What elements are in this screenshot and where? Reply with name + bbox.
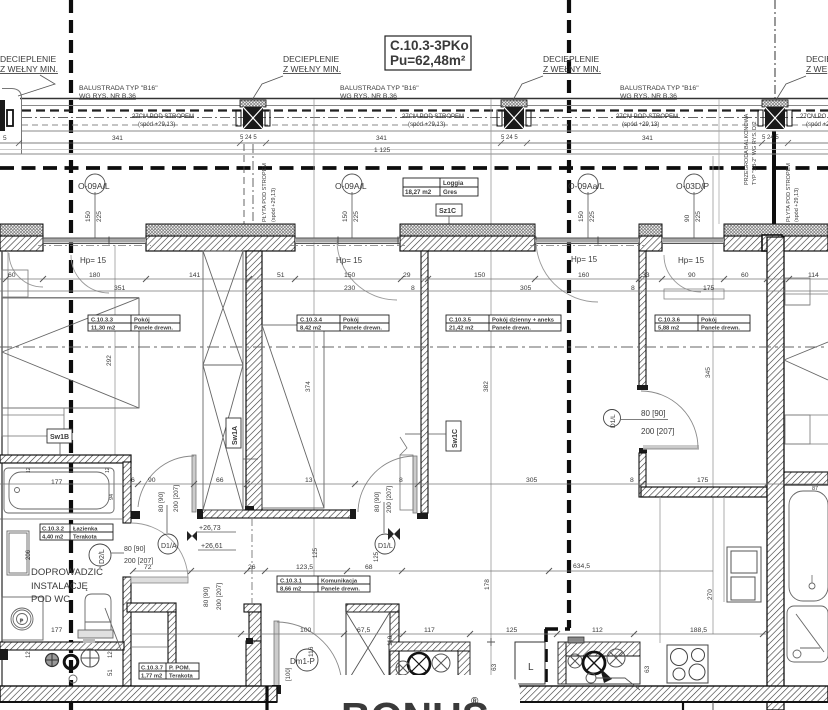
door size text room 3.6 [641,409,674,436]
svg-text:200 [207]: 200 [207] [386,486,393,513]
svg-text:Sz1C: Sz1C [439,208,456,215]
svg-text:67,5: 67,5 [357,627,370,634]
level marker bowtie 1 [187,531,197,541]
svg-text:C.10.3.6: C.10.3.6 [658,318,681,324]
svg-text:8: 8 [411,285,415,292]
svg-text:Pokój: Pokój [134,318,150,324]
svg-text:12: 12 [108,651,114,658]
axis dash-dot horizontal y347 [0,346,828,348]
fridge box L [515,642,545,684]
svg-text:180: 180 [89,272,101,279]
interior wall V2 (x421-428 between room 3.4/living) [417,251,428,519]
svg-text:L: L [528,662,534,673]
svg-text:382: 382 [483,381,490,392]
window door jamb ticks [43,237,598,245]
svg-text:(spód +29,13): (spód +29,13) [408,122,445,128]
room label C.10.3.7 P.POM [132,647,199,680]
svg-text:374: 374 [305,381,312,392]
svg-text:33: 33 [642,272,650,279]
svg-text:225: 225 [96,211,103,222]
level note +26,73 / +26,61 [199,525,223,550]
neighbour desk [785,415,828,444]
balcony door swing arc 1a [9,253,43,287]
svg-text:WG RYS. NR B.36: WG RYS. NR B.36 [620,93,677,100]
laundry small circle [69,675,77,683]
svg-text:PŁYTA POD STROPEM: PŁYTA POD STROPEM [786,163,792,222]
svg-text:12: 12 [26,467,32,473]
window symbol circle O-09Aa/L [568,174,605,238]
heavy black divider line right balcony [772,131,776,238]
svg-text:80 [90]: 80 [90] [158,492,165,512]
exterior wall top segment E (x724-828) [724,224,828,251]
section ticks through bottom wall [265,686,268,710]
svg-text:O-09A/L: O-09A/L [335,181,367,191]
window W4 (x662-724) [662,238,724,244]
left wall inner line [7,251,9,455]
door size text bath door [124,546,153,565]
svg-text:C.10.3.3: C.10.3.3 [91,318,114,324]
svg-text:O-03D/P: O-03D/P [676,181,709,191]
tall cabinet Sw1A with X bracing [203,251,243,510]
grid line x314 [313,99,315,634]
svg-text:P. POM.: P. POM. [169,666,191,672]
door tag Dm1-P circle [290,649,318,671]
slab axis dash-dot [22,117,828,119]
svg-text:26: 26 [248,564,256,571]
slab hidden edge heavy dashed [22,109,828,111]
door tag D1/L circle (room 3.6) [604,410,669,429]
bathroom door D2/L leaf horizontal [131,523,188,583]
svg-text:200 [207]: 200 [207] [173,485,180,512]
svg-text:[100]: [100] [286,667,292,681]
neighbour room right: shelf lines [785,278,828,305]
interior door room 3.6: leaf + arc [641,391,699,449]
svg-text:Panele drewn.: Panele drewn. [134,326,173,332]
svg-text:Panele drewn.: Panele drewn. [343,326,382,332]
svg-text:116: 116 [308,646,315,657]
svg-text:18,27 m2: 18,27 m2 [405,189,432,196]
svg-text:Łazienka: Łazienka [73,527,98,533]
svg-text:160: 160 [578,272,590,279]
kitchen right counter [558,637,640,690]
note 27cm pod stropem 2 [402,114,464,128]
svg-text:4,40 m2: 4,40 m2 [42,535,63,541]
svg-text:D1/L: D1/L [378,543,393,550]
svg-text:66: 66 [216,477,224,484]
svg-text:341: 341 [376,135,387,142]
svg-text:114: 114 [808,272,819,279]
svg-text:(spód +2: (spód +2 [806,122,828,128]
laundry strip fittings: gray circle [46,654,59,667]
svg-text:125: 125 [506,627,518,634]
svg-text:BALUSTRADA TYP "B16": BALUSTRADA TYP "B16" [79,85,158,92]
niche box top-left [2,270,28,297]
balcony column 2 [236,100,270,129]
svg-text:225: 225 [695,211,702,222]
svg-text:29: 29 [403,272,411,279]
balcony column left partial [0,100,13,131]
svg-text:Hp= 15: Hp= 15 [571,255,598,264]
svg-text:200 [207]: 200 [207] [641,427,674,436]
svg-text:8: 8 [399,477,403,484]
svg-text:®: ® [471,696,479,707]
svg-text:123,5: 123,5 [296,564,313,571]
balcony door swing arc 2 [337,240,397,300]
room label C.10.3.1 corridor [277,576,370,593]
laundry strip fittings: black ring [64,655,78,669]
svg-text:177: 177 [51,627,63,634]
svg-text:188,5: 188,5 [690,627,707,634]
svg-text:Sw1B: Sw1B [50,434,69,441]
chain y278 labels [8,272,819,279]
exterior wall top segment C (x400-535) [400,224,535,251]
svg-text:270: 270 [707,589,714,600]
svg-text:Komunikacja: Komunikacja [321,579,358,585]
balcony column 4 [758,100,792,129]
note 27cm pod stropem 1 [132,114,194,128]
svg-text:8: 8 [631,285,635,292]
chain y483 ticks [135,481,770,487]
svg-text:C.10.3.1: C.10.3.1 [280,579,303,585]
grid line x713 [712,156,714,634]
balustrade inner line [22,105,828,107]
left edge black block [0,649,8,660]
svg-text:206: 206 [26,549,32,560]
svg-text:D1/A: D1/A [161,543,177,550]
svg-text:Terakota: Terakota [73,535,98,541]
axis dash-dot below wall V1 [251,518,253,604]
bottom exterior wall right part [343,686,828,702]
laundry strip fittings: crossed circle valve [81,649,99,667]
svg-text:8,42 m2: 8,42 m2 [300,326,321,332]
note balustrada 1 [79,85,158,100]
svg-text:225: 225 [353,211,360,222]
left party wall line [1,251,3,688]
svg-text:WG RYS. NR B.36: WG RYS. NR B.36 [340,93,397,100]
svg-text:BALUSTRADA TYP "B16": BALUSTRADA TYP "B16" [340,85,419,92]
svg-text:341: 341 [112,135,123,142]
note doprowadzic instalacje pod wc [31,567,103,605]
svg-text:WG RYS. NR B.36: WG RYS. NR B.36 [79,93,136,100]
svg-text:341: 341 [642,135,653,142]
svg-text:PŁYTA POD STROPEM: PŁYTA POD STROPEM [262,163,268,222]
svg-text:Sw1A: Sw1A [232,426,239,445]
svg-text:90: 90 [684,214,691,222]
bathroom door leaf + arc [131,455,196,519]
window symbol circle O-09A/L no.2 [335,174,367,238]
door tag D1/L circle (bedroom 3.3) [375,534,395,554]
svg-text:BONUS: BONUS [341,694,489,710]
svg-text:27CM POD STROPEM: 27CM POD STROPEM [616,114,678,120]
svg-text:5 24 5: 5 24 5 [240,135,257,141]
svg-text:Hp= 15: Hp= 15 [336,256,363,265]
svg-text:634,5: 634,5 [573,563,590,570]
svg-text:12: 12 [105,467,111,473]
small cross tick below kitchen chain [487,638,495,646]
section line S2 jog vertical [544,629,548,694]
axis dash-dot vertical right [774,0,776,99]
washbasin [2,597,43,640]
Sw1C label box rotated [405,421,461,451]
svg-text:D1/L: D1/L [610,414,617,428]
svg-text:90: 90 [688,272,696,279]
svg-text:INSTALACJĘ: INSTALACJĘ [31,581,88,592]
svg-text:225: 225 [589,211,596,222]
svg-text:Z WEŁNY MIN.: Z WEŁNY MIN. [283,64,341,74]
svg-text:150: 150 [342,211,349,222]
svg-text:Sw1C: Sw1C [452,429,459,448]
svg-text:68: 68 [365,564,373,571]
tall kitchen unit [727,547,761,602]
svg-text:Loggia: Loggia [443,180,464,187]
bathroom top wall (x0-132) [0,455,131,463]
note decieplenie 1 [0,54,58,96]
dresser room C.10.3.3 [2,408,64,436]
svg-text:150: 150 [85,211,92,222]
corridor Z wall (x246-261) [244,604,261,688]
exterior wall top segment D (x639-662) [639,224,662,251]
svg-text:O-09Aa/L: O-09Aa/L [568,181,605,191]
balcony dimension chain [0,140,828,146]
svg-text:230: 230 [344,285,356,292]
svg-text:72: 72 [144,564,152,571]
section line S1 (heavy dashed vertical left) [69,0,73,710]
party wall right (x767-784) [767,237,784,710]
wall room 3.6 bottom (x641-767) [641,487,767,497]
loggia slab line upper [0,149,828,151]
balustrade corner arc left [2,89,22,155]
svg-text:Terakota: Terakota [169,674,194,680]
svg-text:6: 6 [131,477,135,484]
tall cabinet room C.10.3.4 right [400,437,413,510]
note balustrada 3 [620,85,699,100]
grid line x491 [490,99,492,676]
balustrade outer line [20,98,828,100]
dimension chain line y278 [0,279,828,291]
section line S2 (heavy dashed vertical middle-right) [567,0,571,628]
P.POM right wall (x168-176) [166,612,178,673]
svg-text:27CM POD STROPEM: 27CM POD STROPEM [132,114,194,120]
balcony column 3 [497,100,531,129]
window W2 (x295-400) [290,238,405,246]
svg-text:D2/L: D2/L [99,549,106,564]
room label C.10.3.5 [446,315,561,332]
svg-text:60: 60 [8,272,16,279]
svg-text:POD WC: POD WC [31,594,70,605]
svg-text:80 [90]: 80 [90] [203,587,210,607]
exterior wall top segment B (x146-295) [146,224,295,251]
neighbour wall horizontal right [784,472,828,485]
svg-text:Pu=62,48m²: Pu=62,48m² [390,53,466,68]
entrance door Dm1-P leaf [272,621,341,694]
kitchen boundary line [659,497,661,643]
room label C.10.3.4 [297,315,389,332]
svg-text:1,77 m2: 1,77 m2 [141,674,162,680]
svg-text:12: 12 [26,651,32,658]
svg-text:C.10.3-3PKo: C.10.3-3PKo [390,38,469,53]
dimension chain y634 [130,633,767,635]
svg-text:60: 60 [741,272,749,279]
svg-text:110: 110 [387,635,394,646]
svg-text:C.10.3.7: C.10.3.7 [141,666,163,672]
svg-text:(spód +29,13): (spód +29,13) [271,188,277,222]
bathtub [0,468,123,519]
svg-text:Hp= 15: Hp= 15 [678,256,705,265]
svg-text:175: 175 [697,477,709,484]
balcony door swing arc 3 [536,240,598,302]
svg-text:141: 141 [189,272,201,279]
svg-text:C.10.3.5: C.10.3.5 [449,318,472,324]
svg-text:305: 305 [520,285,532,292]
svg-text:125: 125 [313,547,319,558]
svg-text:DECIEPLENIE: DECIEPLENIE [0,54,57,64]
dimension chain y571 [133,570,713,572]
svg-text:5 24 5: 5 24 5 [762,135,779,141]
svg-text:63: 63 [644,665,651,673]
neighbour bathtub [789,491,828,601]
room boundary thin lines bedroom C.10.3.3 [2,298,139,409]
svg-text:DOPROWADZIĆ: DOPROWADZIĆ [31,567,103,578]
room label C.10.3.2 bathroom [40,524,113,541]
bathroom/laundry divider wall (x2-134) [0,642,124,650]
svg-text:DECIEPLENIE: DECIEPLENIE [543,54,600,64]
svg-text:150: 150 [344,272,356,279]
P.POM top wall (x127-176) [127,603,176,612]
svg-text:80 [90]: 80 [90] [641,409,665,418]
svg-text:351: 351 [114,285,126,292]
svg-text:51: 51 [108,669,114,676]
svg-text:PRZEGRODA BALKONOWA: PRZEGRODA BALKONOWA [744,113,750,185]
svg-text:8: 8 [630,477,634,484]
svg-text:5 24 5: 5 24 5 [501,135,518,141]
Sw1A label box rotated [226,418,258,459]
note decieplenie 3 [513,54,601,100]
stove with 4 burners [667,645,708,683]
grid line x115 [114,245,116,455]
svg-text:O-09A/L: O-09A/L [78,181,110,191]
svg-text:BALUSTRADA TYP "B16": BALUSTRADA TYP "B16" [620,85,699,92]
svg-text:63: 63 [491,663,498,671]
svg-text:80 [90]: 80 [90] [374,492,381,512]
chain y278 tick marks [3,276,792,282]
svg-text:94: 94 [109,494,115,500]
window symbol circle O-03D/P [676,174,709,238]
door tag D1/L circle (bath) [158,505,178,554]
svg-text:8,66 m2: 8,66 m2 [280,587,301,593]
bottom exterior wall left part [0,686,277,702]
svg-text:DECIE: DECIE [806,54,828,64]
svg-text:112: 112 [592,627,603,634]
ground floor heavy dashed horizontal [0,166,828,170]
svg-text:5: 5 [3,135,7,142]
slab lower hidden dashed [22,124,828,126]
svg-text:Pokój: Pokój [701,318,717,324]
svg-text:90: 90 [148,477,156,484]
svg-text:(spód +29,13): (spód +29,13) [138,122,175,128]
svg-text:(spód +29,13): (spód +29,13) [794,188,800,222]
white rounded card [314,675,520,710]
svg-text:345: 345 [705,367,712,378]
title box [385,36,471,70]
bedroom 3.3 door leaf + arc [358,456,417,513]
window swing arc room C.10.3.6 [664,255,724,299]
svg-text:Z WEŁNY MIN.: Z WEŁNY MIN. [0,64,58,74]
Sz1C label box [436,204,462,240]
Sw1B label box [47,429,72,455]
svg-text:5,88 m2: 5,88 m2 [658,326,679,332]
svg-text:13: 13 [305,477,313,484]
svg-text:+26,73: +26,73 [199,525,221,532]
note 27cm pod stropem 4 partial [800,114,828,128]
note balustrada 2 [340,85,419,100]
wardrobe room C.10.3.4 [262,325,324,508]
corridor top wall stub (x199-355) [197,509,356,519]
loggia slab line lower [0,153,828,155]
note 27cm pod stropem 3 [616,114,678,128]
neighbour shower/sink [787,606,828,662]
kitchen boundary line 2 [723,497,725,602]
svg-text:292: 292 [106,355,113,366]
svg-text:C.10.3.4: C.10.3.4 [300,318,323,324]
chain y483 labels [131,477,709,484]
level marker bowtie 2 [388,528,400,540]
svg-text:Z WE: Z WE [806,64,828,74]
svg-text:Z WEŁNY MIN.: Z WEŁNY MIN. [543,64,601,74]
window W1 (x43-146) [38,238,151,246]
balcony door swing arc 1b [71,255,109,293]
svg-text:200 [207]: 200 [207] [216,583,223,610]
svg-text:1 125: 1 125 [374,147,391,154]
svg-text:27CM POD STROPEM: 27CM POD STROPEM [402,114,464,120]
room label C.10.3.3 [88,315,180,332]
svg-text:178: 178 [484,579,491,590]
svg-text:+26,61: +26,61 [201,543,223,550]
window symbol circle O-09A/L no.1 [78,174,110,238]
svg-text:Panele drewn.: Panele drewn. [701,326,740,332]
svg-text:21,42 m2: 21,42 m2 [449,326,474,332]
kitchen sink counter [389,642,470,677]
svg-text:100: 100 [300,627,312,634]
svg-text:11,30 m2: 11,30 m2 [91,326,115,332]
note decieplenie 2 [252,54,341,100]
washing machine / future WC [78,594,121,650]
svg-text:(spód +29,13): (spód +29,13) [622,122,659,128]
svg-text:TYP "SB-2" WG RYS. D.2: TYP "SB-2" WG RYS. D.2 [752,121,758,185]
svg-text:305: 305 [526,477,538,484]
grid line x719 top [718,99,720,224]
dimension chain y483 [0,483,828,485]
svg-text:117: 117 [424,627,435,634]
svg-text:27CM PO: 27CM PO [800,114,827,120]
bathroom right wall (x124-134) [123,462,131,523]
chain y291 labels [114,285,715,292]
svg-text:51: 51 [277,272,285,279]
svg-text:Panele drewn.: Panele drewn. [321,587,360,593]
svg-text:177: 177 [51,479,63,486]
loggia label table [403,178,478,196]
door tag D2/L circle [89,544,124,566]
svg-text:Panele drewn.: Panele drewn. [492,326,531,332]
svg-text:Pokój dzienny + aneks: Pokój dzienny + aneks [492,318,554,324]
interior wall V1 (x246-262 between rooms 3.3/3.4) [245,251,262,513]
svg-text:Gres: Gres [443,189,458,196]
svg-text:175: 175 [703,285,715,292]
svg-text:Hp= 15: Hp= 15 [80,256,107,265]
window W3 (x535-639) [530,238,644,246]
shower/mirror rect on bathroom left wall [7,531,29,575]
interior wall V3 (x639-646 room 3.6 left) [637,251,648,497]
svg-text:80 [90]: 80 [90] [124,546,145,553]
